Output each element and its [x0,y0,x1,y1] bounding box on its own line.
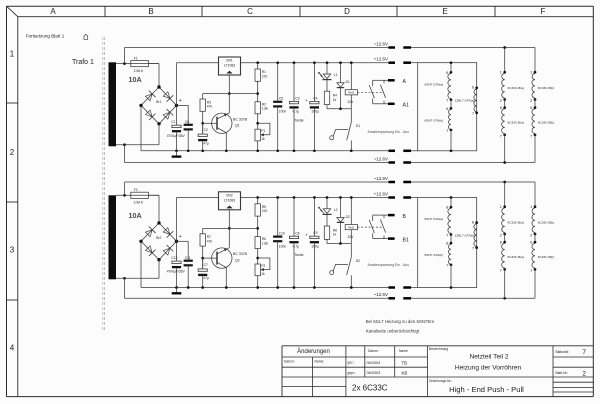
heater 12BL7 GTA(b) [474,224,477,247]
svg-text:gez.:: gez.: [348,361,355,365]
resistor R2 1,8k [257,94,259,102]
wire +12.6V heater rail (top rail) [125,47,389,49]
svg-text:B1: B1 [403,237,409,243]
svg-text:7: 7 [472,112,474,116]
svg-text:Name:: Name: [315,359,325,363]
svg-text:Tantal: Tantal [295,253,304,257]
svg-text:C9: C9 [313,231,317,235]
svg-text:C1: C1 [171,120,175,124]
svg-text:12V: 12V [347,100,354,104]
wire +12.6V heater rail (top rail) [125,181,389,183]
fuse F1 [131,61,149,67]
relay contact 2 [383,80,385,83]
wire bridge minus to 0V rail [140,241,142,287]
svg-text:8: 8 [446,242,448,246]
wire -12.6V heater rail (bottom rail) [125,297,389,299]
heater 6C33C-B(b) winding 1-2 [534,48,536,74]
heater subframe [418,63,477,151]
capacitor C1 [176,105,178,125]
transistor Q1 BC 337B [212,113,232,133]
wire 0V rail [141,150,389,152]
svg-text:220: 220 [262,74,268,78]
svg-text:4700µF/35V: 4700µF/35V [167,134,186,138]
capacitor C9 100µ [313,198,315,237]
svg-text:C10: C10 [279,231,285,235]
svg-text:C7: C7 [204,263,208,267]
resistor R5 220 [257,198,259,204]
capacitor C2 47µ [202,123,204,134]
switch actuator symbol [330,136,334,140]
wire LED/diode/relay common [327,108,351,110]
svg-text:6C33C-B(a): 6C33C-B(a) [508,86,525,90]
relay coil Rel1 12V [350,63,352,90]
heater 6C33C-B(b) winding 6-7 [534,98,536,109]
svg-text:7: 7 [500,269,502,273]
svg-text:2: 2 [500,99,502,103]
svg-text:Änderungen: Änderungen [297,348,330,355]
terminal B1 [373,238,388,240]
capacitor C3 4,7µ Tantal [293,63,295,102]
svg-text:L2: L2 [334,208,338,212]
svg-text:C12: C12 [171,256,177,260]
svg-text:BC 337B: BC 337B [233,117,248,121]
regulator SR2 LT1083 [219,192,241,210]
svg-text:+: + [305,233,308,238]
svg-text:7: 7 [530,269,532,273]
svg-text:100n: 100n [279,110,287,114]
ground [176,288,178,293]
svg-text:L1: L1 [334,73,338,77]
capacitor C8 4,7µ Tantal [293,198,295,237]
svg-text:06/2003: 06/2003 [367,361,381,365]
bridge rectifier Br1 [141,87,177,124]
svg-text:6C33C-B(b): 6C33C-B(b) [538,86,555,90]
transformer secondary winding [109,195,117,279]
svg-text:3: 3 [10,246,15,255]
relay contact 2 [383,215,385,218]
svg-text:100µ: 100µ [311,110,319,114]
svg-text:C5: C5 [279,97,283,101]
regulator SR1 LT1083 [219,57,241,75]
svg-text:6SN7 GTA(a): 6SN7 GTA(a) [425,82,444,86]
svg-text:~12.6V: ~12.6V [374,41,388,46]
wire transformer bottom (AC) [116,144,159,146]
svg-text:10A: 10A [129,75,142,84]
svg-text:6: 6 [472,221,474,225]
svg-text:Trafo 1: Trafo 1 [72,59,94,66]
heater 6C33C-B(b) winding 1-2 [534,182,536,208]
transformer core line [102,37,104,331]
svg-text:6C33C-B(b): 6C33C-B(b) [538,121,555,125]
resistor R4 1k [326,80,328,92]
heater 6C33C-B(a) winding 6-7 [504,233,506,244]
svg-text:F: F [541,7,546,16]
wire bridge plus riser to regulator input [176,63,178,106]
svg-text:1k: 1k [333,233,337,237]
heater 6SN7 GTA(a) [450,61,453,64]
svg-text:P1: P1 [261,129,265,133]
wire fuse to bridge top corner [148,194,159,196]
transistor Q2 BC 337B [212,248,232,268]
wire bridge minus to 0V rail [140,105,142,150]
svg-text:+: + [179,234,182,240]
svg-text:7: 7 [446,264,448,268]
svg-text:Q2: Q2 [235,259,240,263]
svg-text:47k: 47k [207,105,213,109]
svg-text:LT1083: LT1083 [224,64,235,68]
junction AC top / heater rail riser [123,62,126,65]
wire +12.6V regulated rail [241,62,389,64]
diode D2 [340,198,342,218]
svg-text:6: 6 [500,106,502,110]
terminal A1 [373,103,388,105]
svg-text:Kanalseite unberücksichtigt: Kanalseite unberücksichtigt [366,328,420,333]
svg-text:A1: A1 [403,103,409,109]
capacitor C4 100µ [313,63,315,102]
switch S2 [350,244,352,258]
svg-text:6C33C-B(a): 6C33C-B(a) [508,255,525,259]
svg-text:gepr.:: gepr.: [348,371,356,375]
resistor R8 1k [326,215,328,227]
fuse F2 [131,192,149,198]
svg-text:High - End Push - Pull: High - End Push - Pull [449,385,524,394]
potentiometer P1 1k [256,122,259,125]
svg-text:F1: F1 [134,56,138,60]
svg-text:2: 2 [530,99,532,103]
svg-text:Name: Name [399,349,408,353]
resistor R3 47k [202,94,204,99]
svg-text:C3: C3 [295,97,299,101]
capacitor C11 [177,240,189,242]
dashed relay linkage [358,226,384,228]
svg-text:B: B [403,214,407,220]
svg-text:6C33C-B(a): 6C33C-B(a) [508,221,525,225]
svg-text:Br2: Br2 [156,236,161,240]
capacitor C7 47µ [202,258,204,269]
svg-text:47µ: 47µ [203,276,209,280]
svg-text:8: 8 [446,206,448,210]
svg-text:47k: 47k [207,239,213,243]
svg-text:6C33C-B(b): 6C33C-B(b) [538,221,555,225]
resistor R1 220 [257,63,259,69]
svg-text:C2: C2 [204,128,208,132]
capacitor C10 100n [277,198,279,237]
LED L2 [326,198,328,209]
wire bridge plus riser to regulator input [176,198,178,242]
heater 12BL7 GTA(a) [474,89,477,112]
svg-text:C8: C8 [295,231,299,235]
svg-text:2: 2 [10,148,15,157]
svg-text:~12.6V: ~12.6V [374,292,388,297]
svg-text:E: E [442,7,447,16]
svg-text:2.5A tr: 2.5A tr [134,69,144,73]
junction AC bottom / -12.6V rail riser [123,143,126,146]
terminal A [373,79,388,81]
svg-text:6: 6 [530,241,532,245]
svg-text:Tantal: Tantal [295,118,304,122]
svg-text:4700µF/35V: 4700µF/35V [167,270,186,274]
svg-text:6SN7 GTA(b): 6SN7 GTA(b) [425,118,444,122]
wire transformer bottom (AC) [116,277,159,279]
svg-text:D2: D2 [346,215,350,219]
svg-text:10A: 10A [129,211,142,220]
svg-text:12BL7 GTA(b): 12BL7 GTA(b) [455,233,475,237]
svg-text:1k: 1k [261,137,265,141]
svg-text:TB: TB [402,360,408,365]
svg-text:Anodenspannung Ein - Aus: Anodenspannung Ein - Aus [368,263,410,267]
resistor R7 47k [202,228,204,233]
svg-text:06/2003: 06/2003 [367,371,381,375]
svg-text:100µ: 100µ [311,244,319,248]
heater 6C33C-B(a) winding 6-7 [504,98,506,109]
svg-text:Netzteil Teil 2: Netzteil Teil 2 [469,354,508,361]
svg-text:6: 6 [472,86,474,90]
svg-text:100n: 100n [279,244,287,248]
svg-text:7: 7 [530,134,532,138]
svg-text:4,7µ: 4,7µ [293,244,300,248]
dashed relay linkage [358,91,384,93]
heater 6SN7 GTA(b) [450,99,452,110]
svg-text:+: + [305,98,308,103]
svg-text:+12.6V: +12.6V [374,191,388,196]
svg-text:2: 2 [530,234,532,238]
svg-text:Br1: Br1 [156,100,161,104]
svg-text:4: 4 [10,344,15,353]
svg-text:Blatt-Nr.:: Blatt-Nr.: [556,371,569,375]
svg-text:7: 7 [446,99,448,103]
wire -12.6V heater rail (bottom rail) [125,162,389,164]
svg-text:6SN7 GTA(b): 6SN7 GTA(b) [425,253,444,257]
svg-text:7: 7 [472,247,474,251]
svg-text:220: 220 [262,209,268,213]
svg-text:KB: KB [402,371,408,376]
svg-text:6: 6 [530,106,532,110]
svg-text:1k: 1k [333,98,337,102]
svg-text:8: 8 [446,107,448,111]
capacitor C12 [176,241,178,261]
svg-text:1: 1 [530,71,532,75]
bridge rectifier Br2 [141,223,177,260]
heater 6C33C-B(b) winding 6-7 [534,233,536,244]
wire fuse to bridge top corner [148,63,159,65]
svg-text:12BL7 GTA(a): 12BL7 GTA(a) [455,99,475,103]
svg-text:A: A [403,79,407,85]
wire transformer top to fuse [116,63,159,65]
svg-text:Fortsetzung Blatt 1: Fortsetzung Blatt 1 [26,34,65,39]
wire 0V rail [141,287,389,289]
capacitor C5 100n [277,63,279,102]
svg-text:BC 337B: BC 337B [233,252,248,256]
potentiometer P2 1k [256,257,259,260]
svg-text:Heizung der Vorröhren: Heizung der Vorröhren [455,364,522,371]
svg-text:Rel1: Rel1 [348,91,354,95]
svg-text:A: A [50,7,56,16]
svg-text:6C33C-B(a): 6C33C-B(a) [508,121,525,125]
svg-text:Q1: Q1 [235,124,240,128]
wire ADJ node [203,93,258,95]
junction AC bottom / -12.6V rail riser [123,277,126,280]
wire regulator ADJ down [228,210,230,229]
svg-text:1: 1 [530,205,532,209]
svg-text:Anodenspannung Ein - Aus: Anodenspannung Ein - Aus [368,130,410,134]
svg-text:7: 7 [582,349,586,356]
svg-text:D: D [344,7,350,16]
ground [176,151,178,156]
svg-text:~12.6V: ~12.6V [374,156,388,161]
svg-text:F2: F2 [134,188,138,192]
svg-text:LT1083: LT1083 [224,198,235,202]
svg-text:~12.6V: ~12.6V [374,176,388,181]
svg-text:7: 7 [446,129,448,133]
svg-text:47µ: 47µ [203,141,209,145]
svg-text:1k: 1k [261,272,265,276]
svg-text:SR1: SR1 [226,59,233,63]
svg-text:1,8k: 1,8k [262,107,269,111]
relay contact 1 [372,215,374,221]
relay contact 1 [372,80,374,86]
transformer secondary winding [109,62,117,146]
relay coil Rel2 12V [350,198,352,225]
svg-text:C: C [247,7,253,16]
svg-text:S1: S1 [356,124,360,128]
wire +12.6V regulated rail [241,197,389,199]
svg-text:6SN7 GTA(a): 6SN7 GTA(a) [425,217,444,221]
heater 6C33C-B(a) winding 1-2 [504,182,506,208]
svg-text:Rel2: Rel2 [348,226,354,230]
svg-text:+12.6V: +12.6V [374,57,388,62]
svg-text:B: B [148,7,153,16]
wire LED/diode/relay common [327,243,351,245]
switch actuator symbol [330,271,334,275]
svg-text:7: 7 [446,233,448,237]
svg-text:1: 1 [10,50,15,59]
svg-text:D1: D1 [346,80,350,84]
svg-text:2: 2 [500,234,502,238]
svg-text:C6: C6 [185,120,189,124]
svg-text:8: 8 [446,71,448,75]
svg-text:2.5A tr: 2.5A tr [134,201,144,205]
svg-text:S2: S2 [356,259,360,263]
svg-text:1: 1 [500,71,502,75]
svg-text:Zeichnungs-Nr.:: Zeichnungs-Nr.: [429,379,452,383]
svg-text:C11: C11 [185,256,191,260]
svg-text:7: 7 [500,134,502,138]
svg-text:1: 1 [500,205,502,209]
switch S1 [350,109,352,123]
svg-text:1,8k: 1,8k [262,242,269,246]
junction AC top / heater rail riser [123,194,126,197]
svg-text:Bezeichnung: Bezeichnung [429,347,448,351]
heater subframe [418,198,477,288]
svg-text:Datum:: Datum: [284,359,295,363]
svg-text:Datum:: Datum: [368,349,379,353]
svg-text:Blattzahl:: Blattzahl: [556,350,570,354]
heater 6SN7 GTA(b) [450,233,452,244]
continuation symbol [84,34,88,39]
wire regulator ADJ down [228,75,230,94]
svg-text:+: + [179,98,182,104]
svg-text:6C33C-B(b): 6C33C-B(b) [538,255,555,259]
svg-text:12V: 12V [347,235,354,239]
LED L1 [326,63,328,74]
svg-text:2: 2 [582,370,586,377]
svg-text:C4: C4 [313,96,317,100]
diode D1 [340,63,342,83]
heater 6C33C-B(a) winding 1-2 [504,48,506,74]
terminal B [373,214,388,216]
capacitor C6 [177,104,189,106]
svg-text:2x 6C33C: 2x 6C33C [352,384,388,393]
svg-text:Bei 6SL7 Heizung zu den 6SN7Er: Bei 6SL7 Heizung zu den 6SN7Ern [366,319,435,324]
svg-text:P2: P2 [261,264,265,268]
wire transformer top to fuse [116,194,159,196]
svg-text:SR2: SR2 [226,194,233,198]
resistor R6 1,8k [257,228,259,236]
svg-text:6: 6 [500,241,502,245]
wire ADJ node [203,227,258,229]
heater 6SN7 GTA(a) [450,196,453,199]
svg-text:4,7µ: 4,7µ [293,110,300,114]
